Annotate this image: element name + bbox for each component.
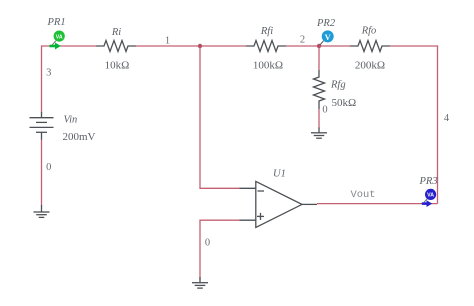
svg-text:U1: U1 bbox=[273, 169, 286, 180]
node 0 (under Vin) bbox=[46, 162, 51, 173]
junction node 1 bbox=[198, 44, 202, 48]
resistor Rfi bbox=[246, 41, 286, 52]
wire Rfo to right vertical (node 4) bbox=[390, 46, 438, 204]
svg-text:200mV: 200mV bbox=[63, 131, 96, 143]
node 4 bbox=[444, 113, 450, 124]
label Rfg bbox=[330, 80, 346, 91]
svg-text:Rfg: Rfg bbox=[330, 80, 346, 91]
node 3 bbox=[46, 68, 51, 79]
wire Rfg bottom to ground bbox=[318, 109, 320, 129]
label Rfo bbox=[361, 26, 377, 37]
wire Rfi to Rfo through node 2 bbox=[286, 45, 350, 47]
wire Vin to ground (node 0) bbox=[41, 140, 43, 206]
ground under plus input (node 0) bbox=[192, 277, 208, 288]
wire top-left horizontal (node 3 to Ri) bbox=[42, 46, 97, 113]
ground under Vin bbox=[34, 205, 50, 217]
resistor Rfg bbox=[314, 70, 325, 109]
svg-text:100kΩ: 100kΩ bbox=[253, 60, 283, 72]
svg-text:4: 4 bbox=[444, 113, 450, 124]
label PR3 bbox=[419, 176, 438, 187]
wire Ri to Rfi through node 1 bbox=[136, 45, 246, 47]
node 0 (plus input ground) bbox=[205, 238, 210, 249]
svg-text:Ri: Ri bbox=[111, 27, 121, 38]
svg-text:50kΩ: 50kΩ bbox=[332, 97, 357, 109]
svg-text:3: 3 bbox=[46, 68, 51, 79]
svg-text:Rfi: Rfi bbox=[260, 26, 273, 37]
value 200kΩ bbox=[355, 60, 385, 72]
svg-text:VA: VA bbox=[56, 34, 63, 40]
ground under Rfg (node 0) bbox=[311, 128, 327, 139]
svg-text:10kΩ: 10kΩ bbox=[105, 60, 130, 72]
wire output Vout (op-amp to right corner) bbox=[317, 203, 438, 205]
label Ri bbox=[111, 27, 121, 38]
svg-text:PR3: PR3 bbox=[419, 176, 438, 187]
svg-text:Vout: Vout bbox=[351, 189, 376, 201]
value 50kΩ bbox=[332, 97, 357, 109]
resistor Ri bbox=[96, 41, 136, 52]
junction node 2 bbox=[317, 44, 321, 48]
svg-text:1: 1 bbox=[165, 35, 170, 46]
node 1 bbox=[165, 35, 170, 46]
wire Rfg top (node 2 down) bbox=[318, 46, 320, 70]
svg-text:0: 0 bbox=[205, 238, 210, 249]
svg-text:0: 0 bbox=[322, 105, 327, 116]
svg-text:0: 0 bbox=[46, 162, 51, 173]
svg-text:PR2: PR2 bbox=[316, 18, 336, 29]
label PR2 bbox=[316, 18, 336, 29]
svg-text:PR1: PR1 bbox=[47, 17, 66, 28]
label Vout bbox=[351, 189, 376, 201]
label U1 bbox=[273, 169, 286, 180]
op-amp U1 bbox=[240, 181, 318, 227]
probe PR3 bbox=[422, 189, 436, 207]
wire op-amp plus input to ground bbox=[200, 220, 240, 279]
probe PR2 bbox=[320, 30, 334, 45]
value 100kΩ bbox=[253, 60, 283, 72]
node 0 (under Rfg) bbox=[322, 105, 327, 116]
value 10kΩ bbox=[105, 60, 130, 72]
svg-text:Vin: Vin bbox=[64, 115, 78, 126]
svg-text:200kΩ: 200kΩ bbox=[355, 60, 385, 72]
probe PR1 bbox=[50, 30, 65, 49]
label Rfi bbox=[260, 26, 273, 37]
svg-text:2: 2 bbox=[300, 35, 305, 46]
label PR1 bbox=[47, 17, 66, 28]
svg-text:Rfo: Rfo bbox=[361, 26, 377, 37]
label Vin bbox=[64, 115, 78, 126]
resistor Rfo bbox=[350, 41, 390, 52]
wire node 1 to op-amp minus input bbox=[200, 46, 240, 188]
battery Vin bbox=[30, 112, 54, 140]
svg-text:VA: VA bbox=[427, 193, 434, 199]
value 200mV bbox=[63, 131, 96, 143]
svg-text:V: V bbox=[325, 32, 332, 42]
node 2 bbox=[300, 35, 305, 46]
